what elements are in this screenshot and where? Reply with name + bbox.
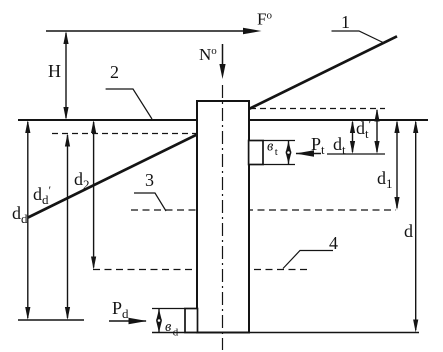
svg-text:2: 2: [110, 62, 119, 82]
svg-text:dd′: dd′: [33, 183, 52, 207]
svg-text:вd: вd: [165, 319, 179, 339]
svg-text:Pd: Pd: [112, 298, 129, 321]
svg-text:H: H: [48, 61, 61, 81]
svg-text:dt′: dt′: [356, 117, 372, 141]
svg-text:No: No: [199, 45, 217, 64]
svg-text:4: 4: [329, 233, 338, 253]
svg-text:вt: вt: [267, 139, 278, 159]
svg-text:d2: d2: [74, 169, 90, 192]
svg-text:1: 1: [341, 12, 350, 32]
svg-text:dt: dt: [333, 134, 346, 157]
svg-text:Pt: Pt: [311, 134, 325, 157]
svg-text:d: d: [404, 221, 413, 241]
svg-text:Fo: Fo: [257, 10, 272, 29]
svg-text:dd: dd: [12, 203, 28, 226]
svg-text:d1: d1: [377, 168, 393, 191]
svg-text:3: 3: [145, 170, 154, 190]
